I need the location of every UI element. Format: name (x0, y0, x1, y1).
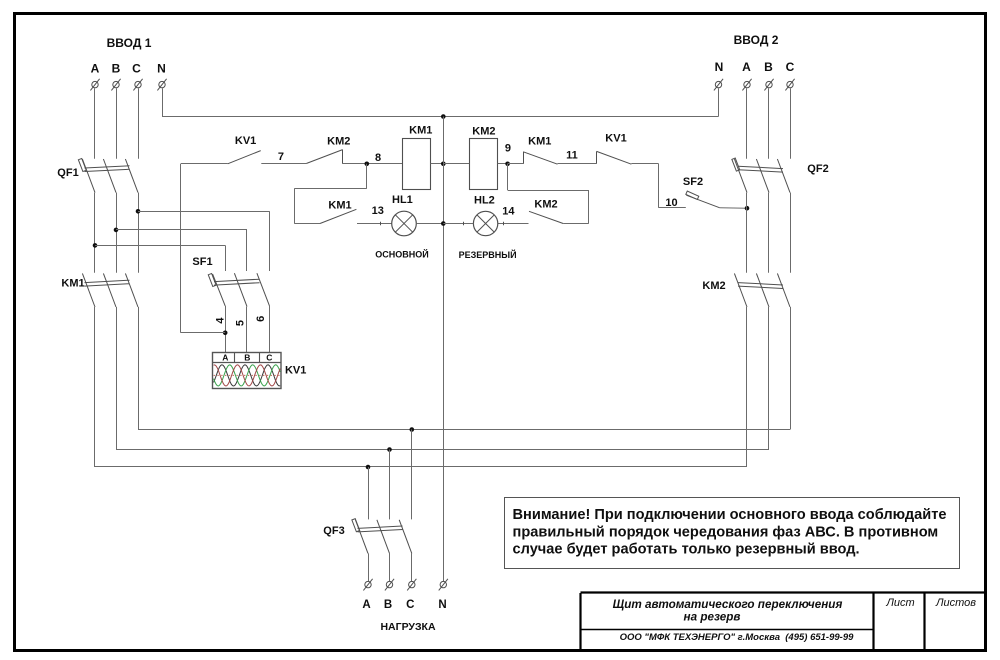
node tap phase C to SF1.3 (136, 209, 141, 214)
node bus B to QF3 (387, 447, 392, 452)
svg-text:C: C (406, 599, 414, 611)
svg-text:KV1: KV1 (285, 364, 306, 376)
svg-text:KM2: KM2 (702, 280, 725, 292)
svg-text:7: 7 (278, 151, 284, 163)
breaker SF1 (208, 273, 269, 306)
svg-text:N: N (715, 60, 724, 74)
contactor KM2 main contacts (734, 273, 790, 307)
svg-text:KV1: KV1 (235, 135, 256, 147)
wire control feed to KV1 contact (181, 163, 228, 165)
svg-text:QF1: QF1 (57, 167, 78, 179)
coil KM1 (403, 139, 431, 190)
svg-text:KM1: KM1 (61, 278, 84, 290)
svg-text:НАГРУЗКА: НАГРУЗКА (380, 621, 436, 633)
svg-text:правильный порядок чередования: правильный порядок чередования фаз АВС. … (513, 524, 939, 540)
node N bus / control neutral junction (441, 114, 446, 119)
node tap phase B to SF1.2 (114, 228, 119, 233)
wire KM2.A to bottom bus A (746, 307, 748, 467)
svg-text:A: A (91, 62, 100, 76)
svg-text:Щит автоматического переключен: Щит автоматического переключения (613, 598, 843, 611)
svg-text:HL1: HL1 (392, 194, 413, 206)
svg-text:ВВОД 2: ВВОД 2 (734, 33, 779, 47)
wire QF2.B to KM2.2 (768, 193, 770, 273)
lead tick (380, 222, 382, 226)
contact KM1 NO (branch left) (320, 209, 356, 223)
wire input2 phase B to QF2 (768, 88, 770, 159)
svg-text:HL2: HL2 (474, 195, 495, 207)
wire bus C down to QF3.3 (411, 430, 413, 520)
wire QF2.A to KM2.1 (746, 193, 748, 273)
phase labels A B C N (input 1) (91, 62, 166, 76)
load terminals (363, 579, 448, 591)
node SF2 junction on QF2.A wire (745, 206, 750, 211)
node 8 branch junction (365, 162, 370, 167)
svg-text:QF2: QF2 (807, 163, 828, 175)
wire segment 11 (558, 163, 597, 165)
svg-text:KM2: KM2 (472, 126, 495, 138)
svg-text:13: 13 (372, 205, 384, 217)
contact KV1 (right) (597, 151, 632, 164)
terminals input 1 (90, 79, 166, 91)
wire input2 phase A to QF2 (746, 88, 748, 159)
contact KM2 NC (left) (306, 150, 342, 164)
svg-text:SF1: SF1 (192, 256, 212, 268)
terminals input 2 (714, 79, 795, 91)
wire branch right (node9 down-around) (508, 164, 589, 224)
load phase labels A B C N (362, 599, 446, 611)
svg-text:KM1: KM1 (328, 200, 351, 212)
lamp HL2 (473, 211, 497, 235)
wire input1 phase A to QF1 (94, 88, 96, 159)
wire QF3.1 to load terminal A (368, 553, 370, 581)
wire segment 7 (261, 163, 306, 165)
wire QF2.C to KM2.3 (790, 193, 792, 273)
svg-text:N: N (157, 62, 166, 76)
wire KM1.C to bottom bus C (138, 307, 140, 430)
wire QF3.3 to load terminal C (411, 553, 413, 581)
svg-text:на резерв: на резерв (684, 611, 741, 624)
voltage relay KV1 box (213, 352, 282, 388)
svg-text:B: B (384, 599, 392, 611)
wire segment 8 to KM1 coil (343, 163, 403, 165)
wire KM1.B to bottom bus B (116, 307, 118, 450)
wire QF1.C to KM1.3 (138, 193, 140, 273)
bus wire phase C (138, 429, 790, 431)
wire segment 13 to HL1 (357, 223, 392, 225)
lamp HL1 (392, 211, 417, 236)
svg-text:8: 8 (375, 152, 381, 164)
wire tap B to SF1.2 (116, 230, 247, 272)
wire KM2.B to bottom bus B (768, 307, 770, 450)
wire tap C to SF1.3 (138, 211, 270, 271)
svg-text:ООО "МФК ТЕХЭНЕРГО" г.Москва: ООО "МФК ТЕХЭНЕРГО" г.Москва (495) 651-9… (620, 632, 854, 643)
svg-text:4: 4 (214, 317, 226, 324)
wire SF2 to QF2 phase A (720, 207, 747, 209)
contact KV1 NO (left) (228, 151, 261, 164)
svg-text:6: 6 (255, 316, 267, 322)
wire input1 phase B to QF1 (116, 88, 118, 159)
svg-text:РЕЗЕРВНЫЙ: РЕЗЕРВНЫЙ (459, 249, 517, 260)
svg-text:C: C (786, 60, 795, 74)
svg-text:A: A (362, 599, 370, 611)
wire KV1 right contact down to segment 10 (631, 164, 685, 208)
warning text (513, 507, 947, 558)
wire SF1.4 to KV1.A (225, 306, 227, 352)
svg-text:N: N (438, 599, 446, 611)
svg-text:14: 14 (502, 206, 515, 218)
svg-text:A: A (222, 353, 228, 363)
wire KM1.A to bottom bus A (94, 307, 96, 467)
svg-text:KM2: KM2 (534, 199, 557, 211)
node lamps junction on N line (441, 221, 446, 226)
wire segment 14 to HL2 (498, 223, 529, 225)
wire HL2 to N line (443, 223, 473, 225)
svg-text:случае будет работать только р: случае будет работать только резервный в… (513, 542, 860, 558)
svg-text:C: C (132, 62, 141, 76)
top N bus wire (162, 116, 719, 118)
svg-text:Лист: Лист (885, 597, 914, 609)
lead tick right (503, 222, 505, 226)
svg-text:B: B (112, 62, 121, 76)
wire tap A to SF1.1 (95, 245, 226, 271)
wire QF1.B to KM1.2 (116, 193, 118, 273)
warning note box (505, 498, 960, 569)
breaker SF2 (686, 191, 720, 208)
wire control feed from wire4 up to KV1 contact (181, 164, 226, 333)
svg-text:10: 10 (665, 197, 677, 209)
svg-text:ОСНОВНОЙ: ОСНОВНОЙ (375, 249, 428, 260)
svg-text:ВВОД 1: ВВОД 1 (107, 36, 152, 50)
circuit breaker QF1 (78, 158, 138, 192)
wire input1 N down (162, 88, 164, 116)
coil KM2 (470, 139, 498, 190)
KV1 sine waves 3-phase (214, 365, 281, 386)
circuit breaker QF3 (352, 519, 412, 554)
node bus A to QF3 (366, 465, 371, 470)
svg-text:C: C (266, 353, 272, 363)
circuit breaker QF2 (732, 158, 790, 193)
svg-text:5: 5 (234, 320, 246, 326)
lead tick mid (463, 222, 465, 226)
wire input2 phase C to QF2 (790, 88, 792, 159)
wire KM2.C to bottom bus C (790, 307, 792, 430)
contactor KM1 main contacts (82, 273, 138, 307)
wire QF1.A to KM1.1 (94, 193, 96, 273)
node coil junction on N line (441, 162, 446, 167)
node bus C to QF3 (410, 427, 415, 432)
title block frame (581, 593, 986, 650)
svg-text:KM1: KM1 (528, 136, 551, 148)
wire node9 to KM1 NC contact (508, 163, 524, 165)
wire KM2 coil to node 9 (498, 163, 508, 165)
svg-text:Листов: Листов (935, 597, 976, 609)
svg-text:A: A (742, 60, 751, 74)
phase labels N A B C (input 2) (715, 60, 795, 74)
node 9 branch junction (505, 162, 510, 167)
svg-text:B: B (244, 353, 250, 363)
wire SF1.5 to KV1.B (246, 307, 248, 353)
svg-text:B: B (764, 60, 773, 74)
contact KM2 NO (branch right) (529, 211, 563, 223)
wire bus A down to QF3.1 (368, 467, 370, 519)
svg-text:QF3: QF3 (323, 525, 344, 537)
node KV1 control feed tap on wire 4 (223, 331, 228, 336)
wire N central line (443, 117, 445, 582)
wire HL1 to N line (416, 223, 443, 225)
svg-text:KV1: KV1 (605, 133, 626, 145)
wire KM1 coil to N line (431, 163, 444, 165)
svg-text:Внимание! При подключении осно: Внимание! При подключении основного ввод… (513, 507, 947, 523)
wire QF3.2 to load terminal B (389, 553, 391, 581)
svg-text:KM1: KM1 (409, 125, 432, 137)
wire N line to KM2 coil (443, 163, 469, 165)
svg-text:11: 11 (566, 150, 578, 162)
contact KM1 NC (right) (523, 152, 557, 165)
bus wire phase A (95, 466, 747, 468)
wire branch left (node8 down-around) (294, 164, 367, 224)
svg-text:KM2: KM2 (327, 136, 350, 148)
bus wire phase B (116, 449, 769, 451)
node tap phase A to SF1.1 (93, 243, 98, 248)
wire input1 phase C to QF1 (138, 88, 140, 159)
svg-text:9: 9 (505, 143, 511, 155)
svg-text:SF2: SF2 (683, 176, 703, 188)
wire input2 N down (718, 88, 720, 116)
wire bus B down to QF3.2 (389, 450, 391, 520)
wire SF1.6 to KV1.C (269, 306, 271, 352)
